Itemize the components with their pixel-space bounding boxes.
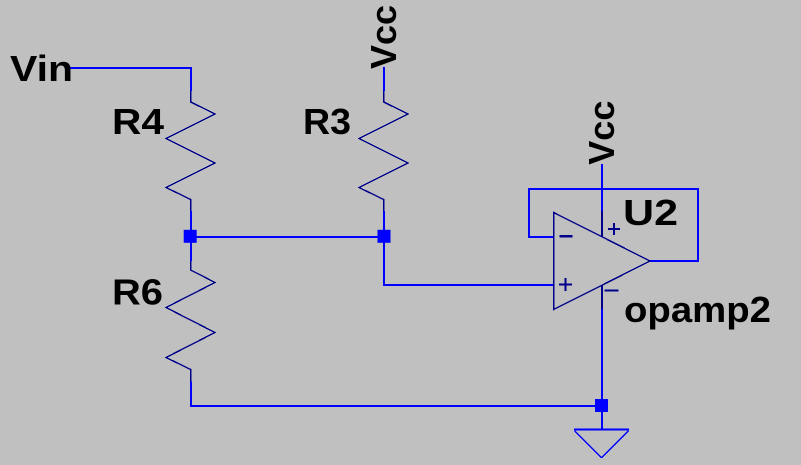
svg-text:Vcc: Vcc xyxy=(363,5,404,69)
svg-text:R3: R3 xyxy=(303,101,351,142)
svg-text:R6: R6 xyxy=(112,272,163,313)
svg-text:U2: U2 xyxy=(623,192,678,233)
svg-text:Vin: Vin xyxy=(10,48,73,89)
svg-text:R4: R4 xyxy=(112,101,164,142)
svg-text:opamp2: opamp2 xyxy=(624,289,771,330)
svg-text:Vcc: Vcc xyxy=(581,101,622,165)
